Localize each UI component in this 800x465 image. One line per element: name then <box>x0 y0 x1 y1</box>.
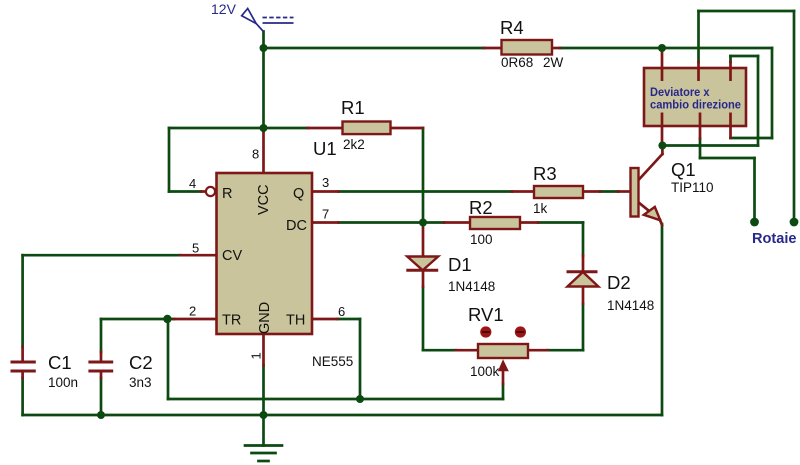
svg-text:C1: C1 <box>48 352 72 373</box>
svg-text:R2: R2 <box>469 197 493 218</box>
svg-text:D1: D1 <box>448 254 472 275</box>
svg-text:Q: Q <box>293 186 304 202</box>
svg-text:2: 2 <box>189 304 196 319</box>
svg-text:RV1: RV1 <box>468 304 504 325</box>
svg-text:NE555: NE555 <box>312 354 353 369</box>
svg-text:TIP110: TIP110 <box>671 180 714 195</box>
svg-text:3n3: 3n3 <box>129 375 152 390</box>
svg-text:Rotaie: Rotaie <box>752 230 797 247</box>
svg-text:VCC: VCC <box>256 184 272 215</box>
svg-text:100: 100 <box>470 232 493 247</box>
svg-text:R: R <box>222 186 232 202</box>
svg-text:1k: 1k <box>533 201 548 216</box>
svg-text:1N4148: 1N4148 <box>448 279 495 294</box>
svg-text:5: 5 <box>192 241 199 256</box>
svg-text:Q1: Q1 <box>671 159 696 180</box>
svg-text:2W: 2W <box>543 55 564 70</box>
svg-text:0R68: 0R68 <box>501 55 533 70</box>
svg-text:100k: 100k <box>470 364 500 379</box>
svg-text:12V: 12V <box>211 1 237 17</box>
svg-text:100n: 100n <box>48 375 78 390</box>
svg-text:1: 1 <box>249 352 264 359</box>
svg-text:R3: R3 <box>533 163 557 184</box>
svg-text:R4: R4 <box>500 17 524 38</box>
svg-text:D2: D2 <box>607 272 631 293</box>
svg-text:6: 6 <box>338 304 345 319</box>
svg-text:DC: DC <box>286 218 307 234</box>
svg-text:2k2: 2k2 <box>343 137 365 152</box>
svg-text:C2: C2 <box>129 352 153 373</box>
svg-text:3: 3 <box>322 175 329 190</box>
svg-text:TR: TR <box>222 313 241 329</box>
svg-text:Deviatore x: Deviatore x <box>650 87 710 99</box>
svg-text:8: 8 <box>252 147 259 162</box>
svg-text:GND: GND <box>257 302 273 334</box>
svg-text:U1: U1 <box>313 138 337 159</box>
svg-text:TH: TH <box>286 313 305 329</box>
svg-text:R1: R1 <box>341 97 365 118</box>
svg-text:7: 7 <box>322 207 329 222</box>
svg-text:cambio direzione: cambio direzione <box>650 100 741 112</box>
svg-text:4: 4 <box>189 176 196 191</box>
svg-text:1N4148: 1N4148 <box>607 298 654 313</box>
svg-text:CV: CV <box>222 248 242 264</box>
